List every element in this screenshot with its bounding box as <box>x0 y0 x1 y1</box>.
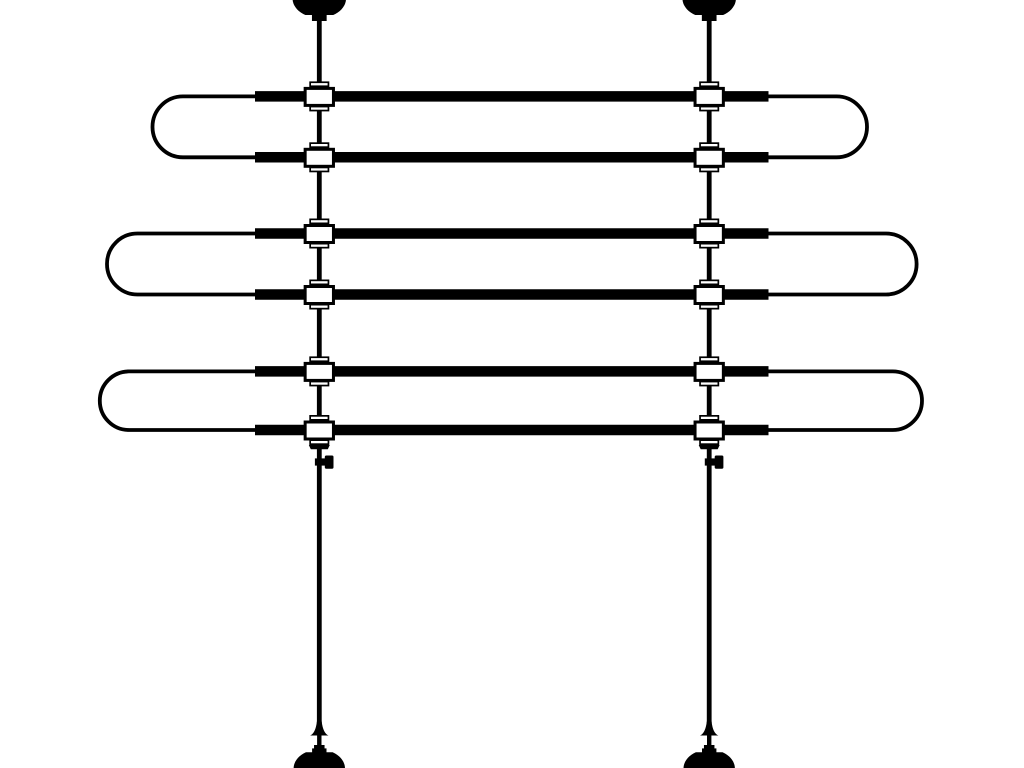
bar 4 <box>255 289 769 300</box>
bar 2 <box>255 152 769 163</box>
left pole top ball <box>293 0 346 15</box>
clamp bar2 right pole <box>695 143 723 171</box>
clamp bar5 right pole <box>695 357 723 385</box>
tube loop 2 (middle stadium) <box>107 234 917 295</box>
bottom flare (trumpet foot), left pole <box>310 722 328 736</box>
clamp bar3 right pole <box>695 219 723 247</box>
left pole top neck <box>312 14 327 21</box>
bottom ball, right pole <box>684 752 735 768</box>
bottom stem, left pole <box>317 735 321 747</box>
clamp bar2 left pole <box>305 143 333 171</box>
bottom ball, left pole <box>294 752 345 768</box>
tube loop 1 (top stadium) <box>153 96 868 157</box>
clamp bar1 right pole <box>695 82 723 110</box>
collar below bar6 clamp, left pole <box>309 445 330 449</box>
clamp bar4 right pole <box>695 280 723 308</box>
clamp bar6 right pole <box>695 416 723 444</box>
bottom cap, left pole <box>312 745 326 754</box>
right pole <box>707 19 712 723</box>
right pole top neck <box>702 14 717 21</box>
bar 1 (thick center tube) <box>255 91 769 102</box>
tube loop 3 (bottom stadium) <box>100 371 922 430</box>
collar below bar6 clamp, right pole <box>699 445 720 449</box>
bar 3 <box>255 228 769 239</box>
bar 5 <box>255 366 769 377</box>
right pole top ball <box>683 0 736 15</box>
bottom stem, right pole <box>707 735 711 747</box>
clamp bar3 left pole <box>305 219 333 247</box>
left pole <box>317 19 322 723</box>
tension knob, left pole <box>315 456 334 469</box>
bottom flare (trumpet foot), right pole <box>700 722 718 736</box>
bar 6 <box>255 425 769 436</box>
clamp bar4 left pole <box>305 280 333 308</box>
bottom cap, right pole <box>702 745 716 754</box>
clamp bar1 left pole <box>305 82 333 110</box>
clamp bar5 left pole <box>305 357 333 385</box>
tension knob, right pole <box>705 456 724 469</box>
clamp bar6 left pole <box>305 416 333 444</box>
